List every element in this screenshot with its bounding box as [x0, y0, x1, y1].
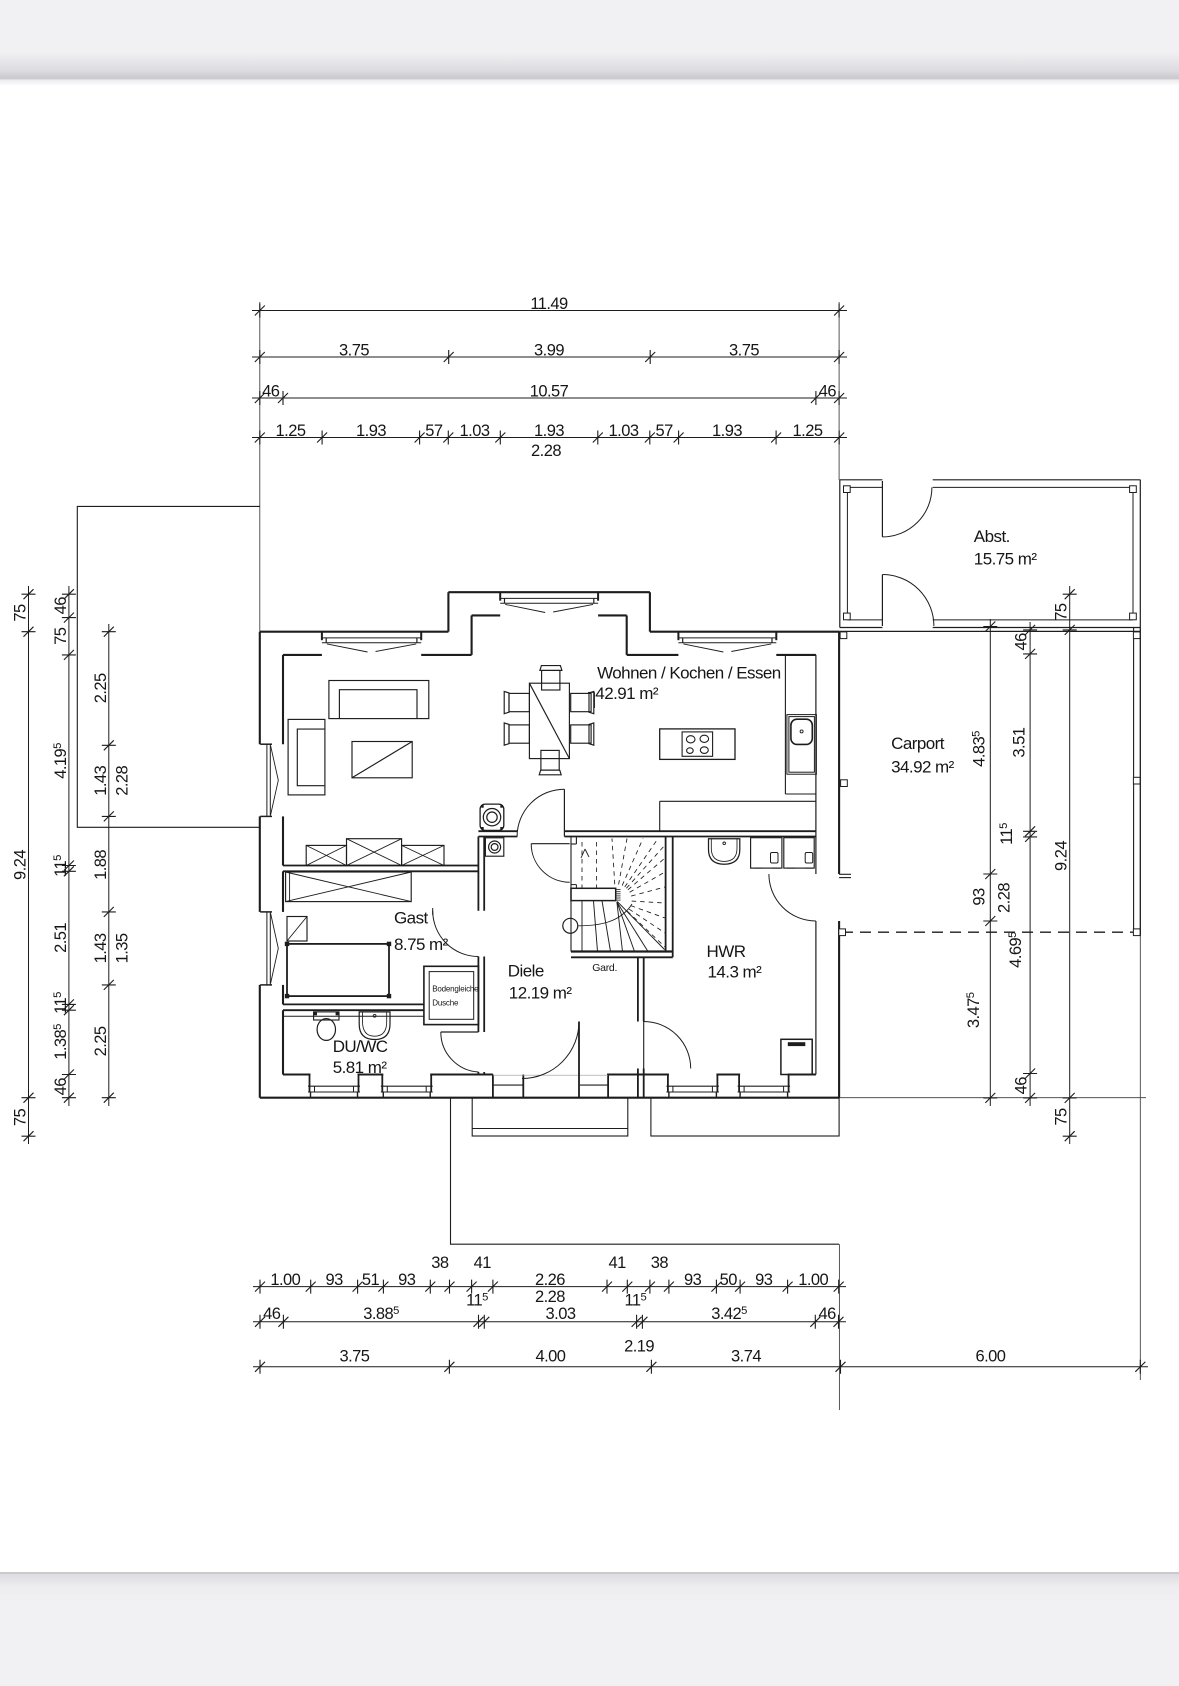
svg-text:1.03: 1.03 — [460, 422, 490, 440]
svg-text:11.49: 11.49 — [530, 295, 568, 313]
svg-text:Wohnen / Kochen / Essen: Wohnen / Kochen / Essen — [597, 664, 781, 683]
svg-text:9.24: 9.24 — [12, 850, 30, 880]
svg-text:10.57: 10.57 — [530, 382, 569, 400]
svg-text:115: 115 — [52, 855, 70, 877]
svg-text:12.19 m²: 12.19 m² — [509, 984, 573, 1003]
svg-text:75: 75 — [12, 604, 30, 622]
svg-text:1.385: 1.385 — [52, 1024, 70, 1060]
svg-text:4.835: 4.835 — [971, 731, 989, 767]
svg-text:Dusche: Dusche — [432, 998, 459, 1007]
svg-text:2.25: 2.25 — [92, 673, 110, 703]
svg-text:3.75: 3.75 — [729, 341, 759, 359]
svg-text:2.26: 2.26 — [535, 1271, 565, 1289]
svg-text:75: 75 — [1053, 1108, 1071, 1126]
svg-text:2.28: 2.28 — [531, 442, 561, 460]
svg-text:57: 57 — [655, 422, 673, 440]
svg-text:46: 46 — [819, 382, 837, 400]
svg-text:1.00: 1.00 — [270, 1271, 300, 1289]
svg-text:41: 41 — [474, 1254, 492, 1272]
svg-text:46: 46 — [52, 1078, 70, 1096]
svg-text:1.93: 1.93 — [534, 422, 564, 440]
svg-text:51: 51 — [362, 1271, 380, 1289]
svg-text:3.03: 3.03 — [546, 1305, 576, 1323]
svg-text:46: 46 — [818, 1305, 836, 1323]
svg-text:Bodengleiche: Bodengleiche — [432, 985, 479, 994]
svg-text:41: 41 — [608, 1254, 626, 1272]
svg-text:46: 46 — [262, 382, 280, 400]
svg-text:46: 46 — [52, 597, 70, 615]
svg-text:1.35: 1.35 — [114, 933, 132, 963]
svg-text:2.28: 2.28 — [535, 1288, 565, 1306]
svg-text:3.475: 3.475 — [965, 992, 983, 1028]
svg-text:2.51: 2.51 — [52, 923, 70, 953]
svg-text:2.28: 2.28 — [996, 883, 1014, 913]
svg-text:93: 93 — [684, 1271, 702, 1289]
svg-text:Gast: Gast — [394, 909, 429, 928]
svg-text:8.75 m²: 8.75 m² — [394, 935, 449, 954]
svg-text:115: 115 — [466, 1291, 488, 1309]
svg-text:50: 50 — [720, 1271, 738, 1289]
svg-text:3.51: 3.51 — [1011, 727, 1029, 757]
svg-text:5.81 m²: 5.81 m² — [333, 1058, 388, 1077]
svg-text:3.75: 3.75 — [339, 1347, 369, 1365]
svg-text:Diele: Diele — [508, 962, 544, 981]
svg-text:9.24: 9.24 — [1053, 841, 1071, 871]
svg-text:34.92 m²: 34.92 m² — [891, 758, 955, 777]
svg-text:3.885: 3.885 — [363, 1305, 399, 1323]
svg-text:38: 38 — [431, 1254, 449, 1272]
svg-text:14.3 m²: 14.3 m² — [708, 962, 763, 981]
svg-text:1.88: 1.88 — [92, 850, 110, 880]
svg-text:75: 75 — [1053, 603, 1071, 621]
svg-text:57: 57 — [425, 422, 443, 440]
svg-text:1.43: 1.43 — [92, 765, 110, 795]
svg-text:93: 93 — [398, 1271, 416, 1289]
svg-text:75: 75 — [12, 1109, 30, 1127]
svg-text:1.00: 1.00 — [798, 1271, 828, 1289]
svg-text:93: 93 — [325, 1271, 343, 1289]
svg-text:115: 115 — [624, 1291, 646, 1309]
svg-text:38: 38 — [651, 1254, 669, 1272]
svg-text:46: 46 — [1013, 633, 1031, 651]
svg-text:6.00: 6.00 — [975, 1347, 1005, 1365]
svg-text:15.75 m²: 15.75 m² — [974, 550, 1038, 569]
svg-text:3.74: 3.74 — [731, 1347, 761, 1365]
svg-text:93: 93 — [755, 1271, 773, 1289]
svg-text:1.93: 1.93 — [356, 422, 386, 440]
svg-text:46: 46 — [263, 1305, 281, 1323]
svg-text:115: 115 — [52, 992, 70, 1014]
svg-text:93: 93 — [971, 888, 989, 906]
svg-text:3.425: 3.425 — [711, 1305, 747, 1323]
svg-text:2.28: 2.28 — [114, 765, 132, 795]
svg-text:Carport: Carport — [891, 734, 945, 753]
svg-text:1.03: 1.03 — [609, 422, 639, 440]
svg-text:HWR: HWR — [707, 942, 746, 961]
svg-text:115: 115 — [998, 823, 1016, 845]
svg-text:75: 75 — [52, 627, 70, 645]
svg-text:DU/WC: DU/WC — [333, 1037, 388, 1056]
svg-text:Gard.: Gard. — [592, 962, 617, 974]
svg-text:46: 46 — [1013, 1077, 1031, 1095]
svg-text:Abst.: Abst. — [974, 527, 1010, 546]
svg-text:4.695: 4.695 — [1007, 932, 1025, 968]
svg-text:1.43: 1.43 — [92, 933, 110, 963]
svg-text:4.00: 4.00 — [535, 1347, 565, 1365]
svg-text:1.25: 1.25 — [793, 422, 823, 440]
svg-text:1.93: 1.93 — [712, 422, 742, 440]
svg-text:3.75: 3.75 — [339, 341, 369, 359]
svg-text:4.195: 4.195 — [52, 743, 70, 779]
svg-text:1.25: 1.25 — [276, 422, 306, 440]
svg-text:2.25: 2.25 — [92, 1026, 110, 1056]
svg-text:42.91 m²: 42.91 m² — [595, 684, 659, 703]
svg-text:2.19: 2.19 — [624, 1337, 654, 1355]
svg-text:3.99: 3.99 — [534, 341, 564, 359]
